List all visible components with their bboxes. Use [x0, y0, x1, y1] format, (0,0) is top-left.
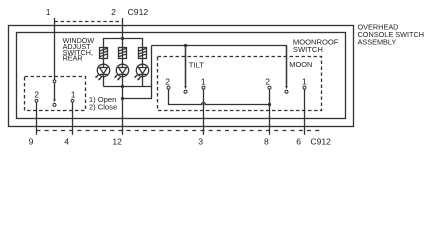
svg-text:2: 2 [34, 90, 39, 100]
window switch contact 1 [71, 99, 74, 102]
wire hop over pin 3 wire [202, 103, 206, 105]
TILT contact 1 [202, 86, 205, 89]
wire MOON contact 2 to pin 8 [269, 89, 271, 135]
svg-text:6: 6 [296, 137, 301, 147]
wire pin 12 [122, 87, 124, 135]
TILT contact 2 [167, 86, 170, 89]
junction dot TILT common [184, 44, 187, 47]
window switch movable blade [53, 99, 56, 102]
LED D1 [95, 59, 110, 87]
feed wire from top rail down to pin12 node [123, 46, 152, 99]
svg-text:MOON: MOON [289, 60, 312, 69]
svg-text:3: 3 [198, 137, 203, 147]
wire TILT contact 2 to bus [169, 89, 270, 104]
resistor R3 [139, 48, 147, 59]
MOON contact 1 [303, 86, 306, 89]
svg-text:8: 8 [264, 137, 269, 147]
svg-text:1: 1 [71, 90, 76, 100]
wire pin 9 [36, 102, 38, 135]
svg-text:2: 2 [111, 7, 116, 17]
wire pin 4 [72, 102, 74, 135]
svg-text:2) Close: 2) Close [89, 103, 117, 112]
connector C912 top dashed line [55, 21, 123, 23]
junction dot bus / pin 8 wire [268, 103, 271, 106]
top feed rail to moonroof switch [152, 46, 287, 86]
LED D3 [134, 59, 149, 87]
MOON switch common contact [285, 46, 288, 94]
svg-text:12: 12 [112, 137, 122, 147]
svg-text:TILT: TILT [189, 60, 204, 69]
svg-text:C912: C912 [128, 7, 149, 17]
wire TILT contact 1 to pin 3 [203, 89, 205, 135]
svg-text:1: 1 [201, 77, 206, 87]
svg-text:C912: C912 [310, 137, 331, 147]
svg-text:9: 9 [29, 137, 34, 147]
lamp bottom bus [104, 86, 152, 88]
svg-text:SWITCH: SWITCH [293, 45, 323, 54]
MOON contact 2 [268, 86, 271, 89]
lamp module top bus [104, 39, 143, 48]
junction dot pin12 node [121, 97, 124, 100]
inner assembly box [17, 33, 346, 119]
junction dot pin2/lamp bus [121, 37, 124, 40]
svg-text:ASSEMBLY: ASSEMBLY [358, 38, 397, 47]
outer assembly box [9, 26, 354, 127]
LED D2 [114, 59, 129, 87]
svg-text:4: 4 [64, 137, 69, 147]
connector C912 bottom dashed line [36, 130, 321, 132]
moonroof switch dashed box [158, 57, 322, 111]
svg-text:2: 2 [165, 77, 170, 87]
wire MOON contact 1 to pin 6 [304, 89, 306, 135]
window switch common contact [53, 80, 56, 83]
pin 1 wire to window switch common [54, 18, 56, 80]
svg-text:2: 2 [265, 77, 270, 87]
window adjust switch dashed box [25, 77, 86, 111]
resistor R2 [119, 48, 127, 59]
svg-text:1: 1 [46, 7, 51, 17]
window switch contact 2 [35, 99, 38, 102]
TILT switch common contact [184, 46, 187, 94]
resistor R1 [100, 48, 108, 59]
svg-text:1: 1 [302, 77, 307, 87]
junction dot lamp bus / pin12 [121, 85, 124, 88]
pin 2 wire to lamp bus [122, 18, 124, 39]
svg-text:REAR: REAR [63, 54, 83, 63]
